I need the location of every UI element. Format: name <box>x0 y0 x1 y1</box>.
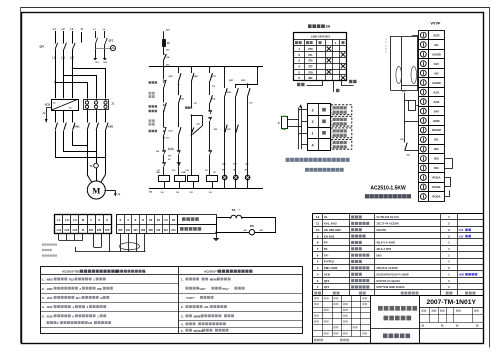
svg-text:VVVF: VVVF <box>430 22 441 26</box>
svg-text:12: 12 <box>157 218 161 222</box>
svg-text:"PAr": "PAr" <box>222 287 230 291</box>
svg-text:DI3: DI3 <box>434 157 439 161</box>
svg-text:1SB: 1SB <box>156 172 161 174</box>
svg-text:KM: KM <box>214 129 218 131</box>
svg-text:102: 102 <box>209 192 212 194</box>
svg-text:4: 4 <box>312 143 314 147</box>
svg-text:ENTER: ENTER <box>194 329 203 333</box>
svg-text:PA: PA <box>324 247 328 251</box>
svg-text:3: 3 <box>386 45 387 47</box>
svg-text:QF1: QF1 <box>324 285 330 289</box>
svg-text:KM: KM <box>400 139 404 141</box>
svg-text:2.: 2. <box>181 305 184 309</box>
svg-text:M-1: M-1 <box>76 296 81 300</box>
svg-text:FM: FM <box>168 155 171 157</box>
svg-text:16: 16 <box>172 218 176 222</box>
svg-text:L11: L11 <box>57 228 62 232</box>
svg-text:QF2: QF2 <box>109 40 114 43</box>
svg-text:KMC: KMC <box>227 92 232 94</box>
svg-text:208: 208 <box>149 229 154 232</box>
svg-text:10: 10 <box>149 218 153 222</box>
svg-text:KM: KM <box>227 129 231 131</box>
svg-text:MENU: MENU <box>194 314 202 318</box>
svg-text:rEF: rEF <box>204 305 209 309</box>
svg-text:277: 277 <box>308 65 313 69</box>
svg-text:DI4: DI4 <box>434 166 439 170</box>
svg-text:4.: 4. <box>42 305 45 309</box>
svg-text:L31: L31 <box>73 228 78 232</box>
svg-text:AGND: AGND <box>432 81 441 85</box>
svg-text:2.: 2. <box>42 287 45 291</box>
svg-text:SA: SA <box>156 150 159 153</box>
svg-text:275: 275 <box>308 59 313 63</box>
svg-text:B: B <box>278 122 280 125</box>
svg-text:JZC17-44 AC220V: JZC17-44 AC220V <box>376 222 399 226</box>
svg-text:SCR: SCR <box>433 33 440 37</box>
svg-text:KM1: KM1 <box>75 126 81 129</box>
svg-text:AI1: AI1 <box>434 43 439 47</box>
svg-text:2SL: 2SL <box>181 99 186 101</box>
svg-text:L3: L3 <box>73 218 77 222</box>
svg-text:279: 279 <box>308 70 313 74</box>
svg-text:3: 3 <box>312 120 314 124</box>
svg-text:FU: FU <box>167 43 170 45</box>
svg-text:L11: L11 <box>52 57 57 60</box>
svg-text:KA1, KA2: KA1, KA2 <box>324 222 337 226</box>
svg-text:10: 10 <box>316 228 320 232</box>
svg-text:KM2: KM2 <box>108 126 114 129</box>
svg-text:HG HR1 HR2: HG HR1 HR2 <box>324 228 341 232</box>
svg-text:202: 202 <box>126 229 131 232</box>
svg-text:KH KH1: KH KH1 <box>324 234 335 238</box>
svg-text:DI2: DI2 <box>434 147 439 151</box>
svg-text:L2: L2 <box>65 218 69 222</box>
svg-text:KA: KA <box>212 98 216 101</box>
svg-text:GND: GND <box>433 119 439 123</box>
svg-text:102: 102 <box>161 192 164 194</box>
svg-text:N: N <box>81 27 83 31</box>
svg-text:271: 271 <box>308 53 313 57</box>
svg-text:3.: 3. <box>42 296 45 300</box>
svg-text:ACB: ACB <box>45 104 51 107</box>
svg-text:281: 281 <box>308 76 313 80</box>
svg-text:"CoPY": "CoPY" <box>186 296 196 300</box>
svg-text:AO2: AO2 <box>433 100 439 104</box>
svg-text:101: 101 <box>89 228 94 232</box>
svg-text:AD155F: AD155F <box>376 228 386 232</box>
svg-text:L21: L21 <box>61 57 66 60</box>
svg-text:SA: SA <box>326 25 331 29</box>
svg-text:AC2510-1.5KW: AC2510-1.5KW <box>370 186 406 192</box>
svg-text:QF1: QF1 <box>39 45 45 49</box>
svg-text:214: 214 <box>171 229 176 232</box>
svg-text:KM1, KM2: KM1, KM2 <box>324 266 338 270</box>
svg-text:(: ( <box>115 270 116 274</box>
svg-text:RO2A: RO2A <box>432 195 441 199</box>
svg-text:1: 1 <box>386 39 387 41</box>
svg-text:DCOM: DCOM <box>432 128 441 132</box>
svg-text:S257*008-3080 3p/63A: S257*008-3080 3p/63A <box>376 285 404 289</box>
svg-text:AO1: AO1 <box>433 90 439 94</box>
svg-text:105: 105 <box>105 228 110 232</box>
svg-text:ACS510*01*031A*4 15KW: ACS510*01*031A*4 15KW <box>376 272 409 276</box>
svg-text:11: 11 <box>316 222 320 226</box>
svg-text:FU*FU2: FU*FU2 <box>324 260 335 264</box>
svg-text:TA: TA <box>90 165 93 168</box>
svg-text:42L6-V 0~450V: 42L6-V 0~450V <box>376 241 395 245</box>
svg-text:ACS510*7SD: ACS510*7SD <box>62 270 81 274</box>
svg-text:212: 212 <box>164 229 169 232</box>
svg-text:2: 2 <box>312 109 314 113</box>
svg-text:3TB4011 AC220V: 3TB4011 AC220V <box>376 266 398 270</box>
svg-text:UL: UL <box>324 215 328 219</box>
svg-text:5.: 5. <box>42 314 45 318</box>
svg-text:2SB: 2SB <box>181 172 186 174</box>
svg-text:204: 204 <box>133 229 138 232</box>
svg-text:4016: 4016 <box>47 314 53 318</box>
svg-text:1101: 1101 <box>47 296 53 300</box>
svg-text:PV: PV <box>324 241 328 245</box>
svg-text:ACS510*7: ACS510*7 <box>204 270 219 274</box>
svg-text:C45: C45 <box>459 229 464 232</box>
svg-text:24V: 24V <box>434 109 439 113</box>
svg-text:5: 5 <box>386 52 387 54</box>
svg-text:ZL: ZL <box>112 103 116 106</box>
svg-text:"rEF": "rEF" <box>199 287 207 291</box>
svg-text:SA: SA <box>167 56 170 59</box>
svg-text:S217G5-C3 3p/16A: S217G5-C3 3p/16A <box>376 279 400 283</box>
svg-text:L1: L1 <box>57 218 61 222</box>
svg-text:DI1: DI1 <box>434 138 439 142</box>
svg-text:5.: 5. <box>181 329 184 333</box>
svg-text:AI2: AI2 <box>88 321 93 325</box>
svg-text:4.: 4. <box>181 322 184 326</box>
svg-text:1: 1 <box>312 132 314 136</box>
svg-text:TL/TB-104 04-10A: TL/TB-104 04-10A <box>376 215 399 219</box>
svg-text:102: 102 <box>176 192 179 194</box>
svg-text:RO1A: RO1A <box>432 176 441 180</box>
svg-text:M: M <box>92 185 100 195</box>
svg-text:4: 4 <box>386 48 387 51</box>
svg-text:50/5: 50/5 <box>376 253 382 257</box>
svg-text:RO1B: RO1B <box>432 185 440 189</box>
svg-text:QF2: QF2 <box>324 279 330 283</box>
svg-text:103: 103 <box>97 228 102 232</box>
svg-text:210: 210 <box>156 229 161 232</box>
svg-text:): ) <box>145 270 146 274</box>
svg-text:206: 206 <box>141 229 146 232</box>
svg-text:KA1: KA1 <box>169 130 174 133</box>
svg-text:C45: C45 <box>459 235 464 238</box>
svg-text:AGND: AGND <box>432 52 441 56</box>
svg-text:1.: 1. <box>181 278 184 282</box>
svg-text:FS2: FS2 <box>69 278 74 282</box>
svg-text:N: N <box>82 228 84 232</box>
svg-text:N: N <box>82 218 84 222</box>
svg-text:DI8: DI8 <box>97 287 102 291</box>
svg-text:102: 102 <box>190 192 193 194</box>
svg-text:200: 200 <box>118 229 123 232</box>
svg-text:ABB: ABB <box>459 273 465 276</box>
svg-text:3.: 3. <box>181 314 184 318</box>
svg-text:AI2: AI2 <box>434 71 439 75</box>
svg-text:12: 12 <box>316 215 320 219</box>
svg-text:L21: L21 <box>65 228 70 232</box>
svg-text:1002: 1002 <box>47 287 53 291</box>
svg-text:2: 2 <box>386 42 387 44</box>
svg-text:2007-TM-1N01Y: 2007-TM-1N01Y <box>426 299 476 306</box>
svg-text:9902: 9902 <box>47 278 53 282</box>
svg-text:10V: 10V <box>434 62 439 66</box>
svg-text:MENU: MENU <box>210 278 218 282</box>
svg-text:1.: 1. <box>42 278 45 282</box>
svg-text:1102: 1102 <box>47 305 53 309</box>
svg-text:L31: L31 <box>70 57 75 60</box>
svg-text:14: 14 <box>164 218 168 222</box>
svg-text:42L6-A 50/5: 42L6-A 50/5 <box>376 247 391 251</box>
svg-text:270: 270 <box>308 47 313 51</box>
svg-text:LW5-16YH3/3: LW5-16YH3/3 <box>311 35 330 39</box>
svg-text:ACB: ACB <box>324 272 330 276</box>
